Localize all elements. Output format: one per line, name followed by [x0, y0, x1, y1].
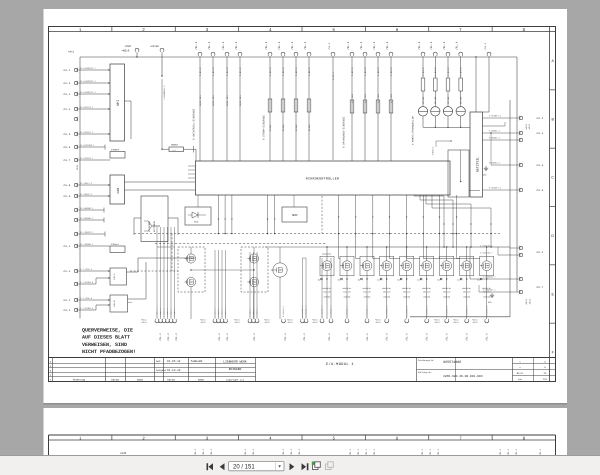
column tick 2: [174, 27, 176, 32]
svg-text:19 mA: 19 mA: [422, 96, 425, 104]
svg-text:151: 151: [543, 378, 548, 381]
svg-text:100k 10n: 100k 10n: [199, 95, 202, 106]
transistor VB2: [249, 277, 258, 286]
title block vertical dividers left: [52, 358, 54, 382]
wire into 24VEXT upper: [78, 159, 110, 161]
svg-text:X.5VINT1.2: X.5VINT1.2: [489, 115, 502, 118]
resistor sensor supply 2: [434, 78, 438, 91]
wire voltage input 4: [390, 56, 392, 161]
block 24Vext lower: [110, 246, 125, 253]
toolbar previous-page button: [220, 463, 225, 470]
connector bottom 18: [329, 320, 333, 323]
svg-text:/9L.4: /9L.4: [417, 41, 421, 50]
svg-text:→KE13: →KE13: [375, 321, 382, 324]
svg-text:X.5VOUT1.2: X.5VOUT1.2: [489, 187, 502, 190]
row tick C/D: [550, 206, 556, 208]
svg-text:/9L.4: /9L.4: [221, 41, 225, 50]
wire watchdog left: [134, 217, 141, 219]
svg-text:X.3VOUT01.2: X.3VOUT01.2: [485, 306, 488, 317]
dashed boundary line: [321, 196, 323, 234]
connector bottom 22: [405, 320, 409, 323]
svg-text:/9L.4: /9L.4: [63, 270, 71, 273]
connector left /9L at y196: [74, 194, 77, 197]
wire current source 2 to bus: [434, 116, 436, 127]
connector top current input 3: [294, 52, 298, 55]
svg-text:/9L.4: /9L.4: [426, 333, 429, 341]
svg-text:DIN/GN: DIN/GN: [443, 296, 449, 299]
current source 2: [434, 91, 436, 107]
svg-text:MA11: MA11: [76, 164, 79, 170]
svg-text:/9L.4: /9L.4: [536, 132, 544, 135]
column tick 3: [238, 27, 240, 32]
page2 column tick 4: [301, 435, 303, 440]
toolbar last-page button: [302, 463, 309, 470]
svg-text:/9L.4: /9L.4: [486, 333, 489, 341]
resistor current input 3: [294, 99, 298, 112]
page2 column tick 5: [364, 435, 366, 440]
connector top current input 2: [281, 52, 285, 55]
transistor VC power: [273, 263, 287, 277]
diode D4 output 6: [420, 278, 422, 281]
connector top universal input 4: [238, 52, 242, 55]
microcontroller staircase wires right: [413, 195, 415, 196]
svg-text:/9L.4: /9L.4: [466, 333, 469, 341]
microcontroller output wires group 1: [217, 195, 219, 234]
svg-text:10A 12V: 10A 12V: [423, 291, 431, 294]
block SPI: [110, 64, 125, 141]
wire into CAN y185: [78, 184, 110, 186]
svg-text:/9L.8: /9L.8: [63, 184, 71, 187]
connector top current input 1: [268, 52, 272, 55]
svg-text:/9L.6: /9L.6: [536, 189, 544, 192]
svg-text:/9L.2: /9L.2: [536, 117, 544, 120]
dashed horizontal watchdog link: [130, 270, 178, 272]
dashed rail segment left: [155, 243, 326, 245]
junction output rail 2: [346, 246, 347, 247]
connector bottom 13: [255, 320, 259, 323]
svg-text:/9L.3: /9L.3: [63, 82, 71, 85]
connector top reference: [331, 52, 335, 55]
junction output rail 6: [426, 246, 427, 247]
svg-text:0...10V: 0...10V: [351, 93, 354, 103]
svg-text:X.3GNDOUT.2: X.3GNDOUT.2: [483, 276, 495, 279]
junction output rail 9: [486, 246, 487, 247]
svg-text:/9L.4: /9L.4: [167, 333, 170, 341]
connector top voltage input 4: [389, 52, 393, 55]
wire bundle left outputs: [156, 227, 158, 319]
svg-text:→KE13: →KE13: [472, 321, 479, 324]
wire source V1: [326, 271, 328, 319]
resistor voltage input 1: [350, 100, 354, 113]
wire stub y210: [78, 209, 104, 211]
connector bottom 3: [162, 320, 166, 323]
connector bottom 20: [365, 320, 369, 323]
column tick 7: [491, 27, 493, 32]
svg-text:/9L.4: /9L.4: [442, 41, 446, 50]
svg-text:/9L.4: /9L.4: [175, 333, 178, 341]
wire +A11 left drop: [79, 57, 81, 319]
svg-text:1.02.2: 1.02.2: [308, 67, 311, 76]
wire sensor supply 1: [422, 56, 424, 78]
block MIKROKONTROLLER U1: [196, 161, 451, 195]
wire drain V5: [406, 247, 408, 261]
connector bottom 8: [217, 320, 221, 323]
svg-text:/9L.4: /9L.4: [264, 41, 268, 50]
wire 24Vext to NETZTEIL: [435, 141, 437, 147]
diode D4 output 3: [360, 278, 362, 281]
wire universal input 2: [212, 56, 214, 161]
wire source V7: [446, 271, 448, 319]
svg-text:10A 12V: 10A 12V: [363, 291, 371, 294]
transistor VA2: [186, 277, 195, 286]
svg-text:01.10.12: 01.10.12: [167, 369, 181, 372]
svg-text:1.03.2: 1.03.2: [390, 67, 393, 76]
svg-text:→KE13: →KE13: [529, 298, 532, 305]
svg-text:DIN/GN: DIN/GN: [423, 296, 429, 299]
connector right /9L.6 y190: [519, 188, 522, 191]
wire drain V3: [366, 247, 368, 261]
page 1 white sheet: [44, 9, 568, 403]
wire y147 stub: [78, 146, 105, 148]
transistor output V9: [482, 261, 492, 271]
wire source V2: [346, 271, 348, 319]
block diode array 16x: [185, 207, 211, 225]
svg-text:16x: 16x: [194, 221, 199, 224]
transistor VA1: [186, 254, 195, 263]
wire sensor supply 2: [434, 56, 436, 78]
svg-text:X.5GND2.2: X.5GND2.2: [489, 137, 501, 140]
wire VC drain: [279, 247, 281, 263]
svg-text:/9L.4: /9L.4: [284, 333, 287, 341]
svg-text:10A 12V: 10A 12V: [443, 291, 451, 294]
svg-text:100k 10n: 100k 10n: [226, 95, 229, 106]
connector top universal input 1: [198, 52, 202, 55]
svg-text:Gez.: Gez.: [156, 360, 162, 363]
svg-text:X.3VOUT01.2: X.3VOUT01.2: [366, 306, 369, 317]
solid output rail: [326, 246, 510, 248]
svg-text:/9L.4: /9L.4: [446, 333, 449, 341]
connector left /9L at y234: [74, 232, 77, 235]
toolbar next-view icon (disabled): [326, 462, 334, 470]
svg-text:/9L.4: /9L.4: [406, 333, 409, 341]
transistor output V3: [362, 261, 372, 271]
connector bottom 24: [445, 320, 449, 323]
svg-text:+5VR: +5VR: [125, 45, 132, 48]
block LIN-A: [110, 268, 127, 285]
shunt resistor R shunt: [169, 147, 184, 152]
svg-text:R=100: R=100: [282, 124, 285, 131]
svg-text:Auftrags-Nr.: Auftrags-Nr.: [418, 371, 432, 374]
svg-text:/9L.2: /9L.2: [63, 69, 71, 72]
svg-text:LIN-A: LIN-A: [113, 273, 116, 280]
resistor voltage input 3: [376, 100, 380, 113]
svg-text:/9L.6: /9L.6: [63, 146, 71, 149]
svg-text:NETZTEIL: NETZTEIL: [476, 157, 480, 172]
svg-text:X.3VOUT01.2: X.3VOUT01.2: [405, 306, 408, 317]
svg-text:X.3VOUT01.2: X.3VOUT01.2: [346, 306, 349, 317]
connector right /9L.4 y133: [519, 131, 522, 134]
connector bottom 9: [220, 320, 224, 323]
svg-text:AUF DIESES BLATT: AUF DIESES BLATT: [82, 335, 130, 341]
connector +5VR / +KE15 top left: [135, 48, 139, 51]
connector left /9L at y310: [74, 308, 77, 311]
wire current input 2: [282, 56, 284, 161]
connector left /9L at y271: [74, 269, 77, 272]
connector bottom 4: [166, 320, 170, 323]
wire universal input 4: [239, 56, 241, 161]
svg-text:von: von: [518, 378, 523, 381]
svg-text:X.5GND1.2: X.5GND1.2: [489, 130, 501, 133]
svg-text:0.1: 0.1: [173, 149, 176, 152]
svg-text:→KE13: →KE13: [528, 123, 531, 130]
wire NETZTEIL top: [475, 57, 477, 112]
row tick A/B: [550, 89, 556, 91]
junction output rail 4: [386, 246, 387, 247]
wire right bus outer: [516, 57, 518, 292]
wire source V5: [406, 271, 408, 319]
svg-text:20 / 151: 20 / 151: [233, 464, 255, 470]
svg-text:/9L.3: /9L.3: [63, 309, 71, 312]
wire sensor supply 4: [460, 56, 462, 78]
current source 3: [447, 91, 449, 107]
svg-text:/9L.4: /9L.4: [346, 333, 349, 341]
svg-text:Änderung: Änderung: [73, 379, 86, 382]
dashed vertical watchdog link: [171, 234, 173, 271]
diode D4 output 9: [480, 278, 482, 281]
wire source V4: [386, 271, 388, 319]
current source 4: [460, 91, 462, 107]
drawing number box: [416, 358, 418, 382]
wire reference input: [332, 56, 334, 160]
diode D4 output 4: [380, 278, 382, 281]
svg-text:/9L.4: /9L.4: [303, 333, 306, 341]
wire current input 1: [269, 56, 271, 161]
wire +KE15W drop to shunt: [161, 79, 163, 149]
svg-text:985574008: 985574008: [443, 360, 461, 365]
connector left /9L at y94: [74, 92, 77, 95]
dashed box halfbridge A: [178, 247, 205, 292]
svg-text:X.3VOUT01.2: X.3VOUT01.2: [465, 306, 468, 317]
svg-text:X.3VOUT01.2: X.3VOUT01.2: [445, 306, 448, 317]
svg-text:X.3VOUT09.2: X.3VOUT09.2: [480, 252, 492, 255]
svg-text:/9L.4: /9L.4: [303, 41, 307, 50]
svg-text:→KE13: →KE13: [234, 321, 241, 324]
connector top sensor supply 2: [433, 52, 437, 55]
svg-text:MIKROKONTROLLER: MIKROKONTROLLER: [306, 177, 339, 181]
svg-text:1.03.2: 1.03.2: [377, 67, 380, 76]
svg-text:/9L.4: /9L.4: [346, 41, 350, 50]
junction output rail 3: [366, 246, 367, 247]
wire drain V2: [346, 247, 348, 261]
svg-text:1.01.2: 1.01.2: [226, 67, 229, 76]
svg-text:WAKE: WAKE: [128, 301, 132, 304]
page2 column tick 3: [238, 435, 240, 440]
page2 column tick 7: [491, 435, 493, 440]
block EXTERNER WATCHDOG: [141, 196, 168, 242]
svg-text:100k 10n: 100k 10n: [239, 95, 242, 106]
wire into SPI y94: [78, 93, 110, 95]
svg-text:LIN-B: LIN-B: [113, 300, 116, 307]
wire halfbridge link: [191, 269, 254, 271]
toolbar page number field: [229, 462, 285, 471]
output driver module box 1: [320, 256, 334, 276]
svg-text:DIN/GN: DIN/GN: [483, 296, 489, 299]
wire voltage input 2: [364, 56, 366, 161]
svg-text:DIN/GN: DIN/GN: [364, 296, 370, 299]
svg-text:X.5GND3.2: X.5GND3.2: [489, 162, 501, 165]
wire drain V1: [326, 247, 328, 261]
diode D4 output 1: [320, 278, 322, 281]
output driver module box 7: [440, 256, 454, 276]
svg-text:DIN/GN: DIN/GN: [344, 296, 350, 299]
wire bottom bus: [410, 316, 510, 318]
connector left /9L at y83: [74, 81, 77, 84]
toolbar next-page button: [290, 463, 295, 470]
connector bottom 23: [425, 320, 429, 323]
ground symbol right 2: [491, 293, 493, 295]
connector top universal input 3: [225, 52, 229, 55]
current source 1: [422, 91, 424, 107]
resistor sensor supply 4: [459, 78, 463, 91]
connector left /9L at y109: [74, 107, 77, 110]
svg-text:/9L.4: /9L.4: [277, 41, 281, 50]
wire source V9: [486, 271, 488, 319]
connector right aux y140: [519, 138, 522, 141]
transistor output V2: [342, 261, 352, 271]
junction output rail 8: [466, 246, 467, 247]
svg-text:10A 12V: 10A 12V: [323, 291, 331, 294]
svg-text:3265-920.36.00.001-003: 3265-920.36.00.001-003: [443, 375, 483, 378]
wire stub y220: [78, 219, 104, 221]
svg-text:NICHT PFADBEZOGEN!: NICHT PFADBEZOGEN!: [82, 349, 136, 355]
connector left /9L at y134: [74, 132, 77, 135]
block TEMP sensor: [282, 207, 307, 222]
wire bundle aux outputs: [214, 250, 216, 319]
connector top universal input 2: [211, 52, 215, 55]
svg-text:/9L.7: /9L.7: [63, 159, 71, 162]
svg-text:KBA2A/B+: KBA2A/B+: [382, 287, 391, 290]
svg-text:/9L.4: /9L.4: [234, 41, 238, 50]
svg-text:/9L.4: /9L.4: [63, 93, 71, 96]
transistor output V4: [382, 261, 392, 271]
svg-text:/9L.4: /9L.4: [63, 245, 71, 248]
wire top right spare: [488, 56, 490, 112]
svg-text:1.04.2: 1.04.2: [422, 67, 425, 76]
svg-text:/9L.4: /9L.4: [194, 41, 198, 50]
svg-text:/9L.4: /9L.4: [385, 41, 389, 50]
svg-text:/9L.4: /9L.4: [207, 41, 211, 50]
svg-text:24Vext: 24Vext: [432, 146, 435, 155]
wire drain V7: [446, 247, 448, 261]
wire VC down: [279, 277, 281, 319]
diode D4 output 7: [440, 278, 442, 281]
connector bottom 11: [248, 320, 252, 323]
svg-text:X.3VOUT01.2: X.3VOUT01.2: [301, 306, 304, 317]
connector right /9L.2 y118: [519, 116, 522, 119]
svg-text:KBA2A/B+: KBA2A/B+: [343, 287, 352, 290]
svg-text:/9L.4: /9L.4: [455, 41, 459, 50]
connector bottom 21: [385, 320, 389, 323]
svg-text:0...10V: 0...10V: [390, 93, 393, 103]
sheet index mini table: [512, 358, 514, 382]
connector bottom 14: [282, 320, 286, 323]
connector right /9L.6 y165: [519, 163, 522, 166]
svg-text:/9L.4: /9L.4: [63, 108, 71, 111]
svg-text:19 mA: 19 mA: [460, 96, 463, 104]
wire drain V6: [426, 247, 428, 261]
svg-text:DIN/GN: DIN/GN: [383, 296, 389, 299]
svg-text:Name: Name: [198, 379, 205, 382]
svg-text:/9L.7: /9L.7: [536, 286, 544, 289]
svg-text:TEMP: TEMP: [291, 214, 298, 217]
connector bottom 16: [304, 320, 308, 323]
svg-text:Datum: Datum: [167, 379, 175, 382]
resistor sensor supply 3: [446, 78, 450, 91]
output driver module box 6: [420, 256, 434, 276]
page2 column tick 2: [174, 435, 176, 440]
column tick 5: [364, 27, 366, 32]
svg-text:→KE13: →KE13: [434, 321, 441, 324]
svg-text:/9L.4: /9L.4: [253, 333, 256, 341]
wire universal input 1: [199, 56, 201, 161]
svg-text:/9L.6: /9L.6: [536, 164, 544, 167]
svg-text:/9L.4: /9L.4: [359, 41, 363, 50]
svg-text:E/A-MODUL 1: E/A-MODUL 1: [326, 362, 354, 367]
svg-text:1.04.2: 1.04.2: [460, 67, 463, 76]
svg-text:KBA2A/B+: KBA2A/B+: [323, 287, 332, 290]
connector top sensor supply 1: [421, 52, 425, 55]
svg-text:→KE13: →KE13: [200, 321, 207, 324]
svg-text:1.02.2: 1.02.2: [269, 67, 272, 76]
connector left /9L at y160: [74, 158, 77, 161]
right lower wires: [510, 247, 519, 249]
wire into SPI y109: [78, 108, 110, 110]
svg-text:19 mA: 19 mA: [434, 96, 437, 104]
svg-text:KBA2A/B+: KBA2A/B+: [442, 287, 451, 290]
svg-text:/9L.4: /9L.4: [429, 41, 433, 50]
svg-text:→KE13: →KE13: [287, 321, 294, 324]
svg-text:1.01.2: 1.01.2: [212, 67, 215, 76]
svg-text:8 UNIVERSAL-EINGÄNGE: 8 UNIVERSAL-EINGÄNGE: [192, 108, 196, 140]
wire voltage input 3: [377, 56, 379, 161]
connector left /9L at y70: [74, 68, 77, 71]
transistor VB1: [249, 254, 258, 263]
wire into CAN y196: [78, 195, 110, 197]
right lower connectors: [519, 246, 522, 249]
svg-text:/9L.4: /9L.4: [366, 333, 369, 341]
resistor current input 4: [307, 99, 311, 112]
microcontroller output wires group 2: [267, 195, 269, 234]
frame right band line: [549, 27, 551, 382]
connector top current input 4: [307, 52, 311, 55]
block LIN-B: [110, 295, 128, 312]
svg-text:/9L.4: /9L.4: [328, 333, 331, 341]
connector bottom 26: [485, 320, 489, 323]
wire halfbridge A down: [190, 287, 192, 319]
svg-text:Name: Name: [137, 379, 144, 382]
svg-text:Blatt: Blatt: [517, 372, 524, 375]
row tick D/E: [550, 264, 556, 266]
svg-text:1.04.2: 1.04.2: [434, 67, 437, 76]
wires into LIN-A: [78, 270, 110, 272]
connector bottom 17: [320, 320, 324, 323]
block regulator section: [448, 150, 469, 197]
svg-text:1.01.2: 1.01.2: [239, 67, 242, 76]
svg-text:TambomD: TambomD: [191, 359, 203, 363]
connector top voltage input 1: [350, 52, 354, 55]
junction output rail 7: [446, 246, 447, 247]
resistor current input 1: [268, 99, 272, 112]
